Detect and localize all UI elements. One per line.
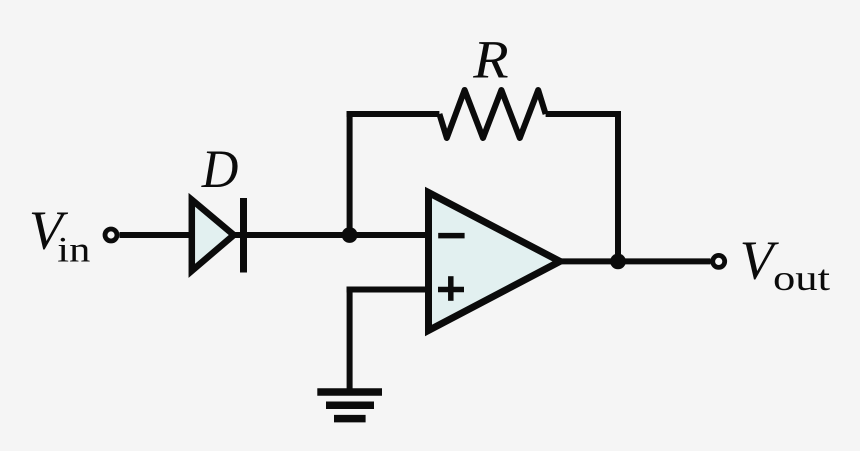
wire input rail <box>120 232 430 238</box>
output terminal <box>713 255 725 267</box>
ground <box>317 392 382 419</box>
wire feedback top left <box>347 111 440 117</box>
wire output <box>556 258 711 264</box>
node junction at inverting input <box>342 227 358 243</box>
node junction at output <box>610 254 626 270</box>
wire feedback top right <box>546 111 621 117</box>
op-amp U1 <box>429 193 561 331</box>
svg-text:D: D <box>201 139 239 199</box>
wire ground vertical <box>347 287 353 392</box>
resistor R zigzag <box>439 90 545 138</box>
op-amp minus sign <box>438 233 464 239</box>
wire feedback left vertical <box>347 111 353 235</box>
wire feedback right vertical <box>615 111 621 261</box>
diode D <box>192 198 244 273</box>
op-amp plus sign <box>438 276 464 301</box>
svg-text:R: R <box>472 29 508 89</box>
input terminal <box>105 229 117 241</box>
wire non-inverting input horizontal <box>347 287 430 293</box>
svg-text:in: in <box>57 230 90 270</box>
svg-text:out: out <box>773 258 830 298</box>
